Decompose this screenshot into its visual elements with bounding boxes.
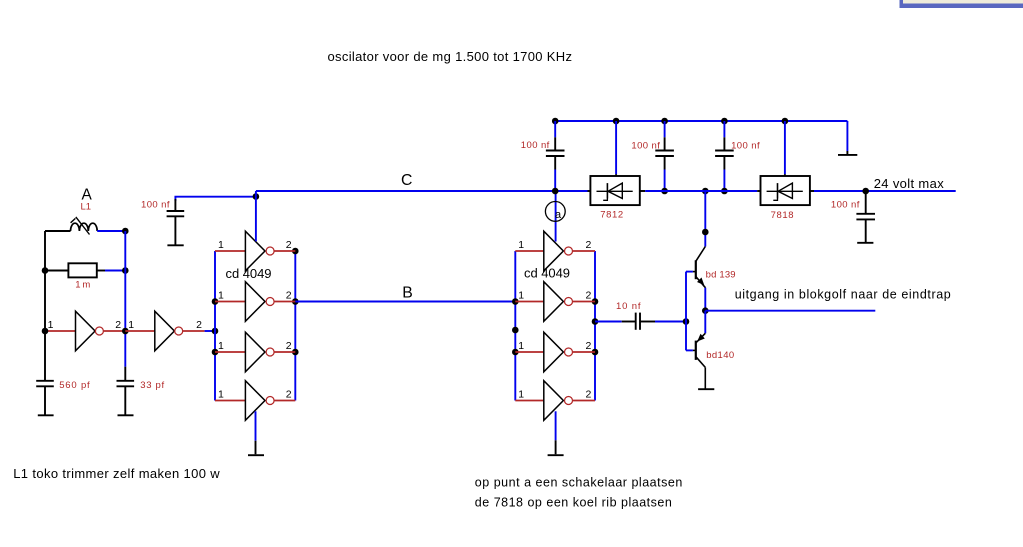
wire 24 volt line xyxy=(814,190,956,192)
window corner fragment xyxy=(900,0,1023,8)
wire xyxy=(214,251,216,401)
resistor R1 value label xyxy=(75,280,90,291)
wire xyxy=(594,251,596,401)
resistor R1 (1 m) xyxy=(68,263,96,277)
transistor Q1 (bd 139) xyxy=(686,247,706,288)
wire base bus xyxy=(685,272,687,351)
wire xyxy=(784,121,786,176)
wire node B xyxy=(295,301,515,303)
capacitor C6 (100 nf) xyxy=(715,121,734,191)
junction xyxy=(512,327,519,334)
svg-text:1: 1 xyxy=(128,319,134,331)
inverter U2C output bubble xyxy=(565,348,573,356)
ground xyxy=(248,441,264,456)
junction xyxy=(613,118,620,125)
svg-text:B: B xyxy=(402,284,413,301)
inductor L1 value label xyxy=(81,202,92,213)
node a label xyxy=(555,209,562,221)
cd 4049 label xyxy=(226,266,272,281)
wire xyxy=(514,251,516,401)
wire xyxy=(175,197,256,201)
wire xyxy=(274,250,295,252)
inverter U1A xyxy=(245,231,265,271)
junction xyxy=(212,328,219,335)
node C label xyxy=(401,172,412,189)
junction xyxy=(592,318,599,325)
wire output line xyxy=(705,310,875,312)
svg-text:1: 1 xyxy=(518,340,524,352)
regulator VR2 label xyxy=(771,210,794,221)
svg-text:2: 2 xyxy=(586,239,592,251)
capacitor C1 (560 pf) xyxy=(36,381,54,416)
junction xyxy=(552,118,559,125)
capacitor C8 (10 nf) xyxy=(622,313,655,330)
pin 2 label xyxy=(286,239,292,251)
capacitor C8 value label xyxy=(616,301,641,312)
junction xyxy=(702,307,709,314)
svg-text:2: 2 xyxy=(586,388,592,400)
wire xyxy=(810,190,814,192)
title text xyxy=(328,49,573,64)
junction xyxy=(253,193,260,200)
wire xyxy=(573,400,595,402)
wire xyxy=(515,301,544,303)
wire xyxy=(640,190,645,192)
svg-text:33 pf: 33 pf xyxy=(140,380,164,391)
junction xyxy=(721,118,728,125)
svg-text:10 nf: 10 nf xyxy=(616,301,641,312)
wire xyxy=(205,330,215,332)
pin 2 label xyxy=(586,289,592,301)
node B label xyxy=(402,284,413,301)
wire xyxy=(124,231,126,367)
svg-text:100 nf: 100 nf xyxy=(521,140,550,151)
inverter U1B output bubble xyxy=(266,298,274,306)
cd 4049 label xyxy=(524,265,570,280)
junction xyxy=(212,298,219,305)
junction xyxy=(552,188,559,195)
svg-text:bd 139: bd 139 xyxy=(706,270,736,281)
wire xyxy=(45,330,76,332)
junction xyxy=(702,229,709,236)
pin 1 label xyxy=(128,319,134,331)
capacitor C7 value label xyxy=(831,200,860,211)
svg-text:2: 2 xyxy=(196,319,202,331)
inverter U2D xyxy=(544,381,564,421)
inverter U1A output bubble xyxy=(266,247,274,255)
svg-text:2: 2 xyxy=(586,340,592,352)
svg-text:1: 1 xyxy=(218,388,224,400)
svg-text:1: 1 xyxy=(518,289,524,301)
pin 2 label xyxy=(586,239,592,251)
svg-text:1: 1 xyxy=(518,239,524,251)
note text xyxy=(475,495,672,509)
junction xyxy=(212,349,219,356)
capacitor C5 (100 nf) xyxy=(655,121,674,191)
svg-text:2: 2 xyxy=(286,388,292,400)
pin 1 label xyxy=(518,340,524,352)
junction xyxy=(683,318,690,325)
wire xyxy=(588,190,591,192)
svg-text:op punt a een schakelaar plaat: op punt a een schakelaar plaatsen xyxy=(475,475,683,489)
capacitor C3 (100 nf) xyxy=(167,199,185,245)
transistor Q2 label xyxy=(706,350,734,361)
junction xyxy=(592,298,599,305)
pin 2 label xyxy=(196,319,202,331)
wire xyxy=(44,231,46,381)
wire xyxy=(294,251,296,401)
pin 1 label xyxy=(218,239,224,251)
pin 2 label xyxy=(586,340,592,352)
transistor Q2 (bd140) xyxy=(686,333,705,367)
wire xyxy=(274,351,295,353)
wire xyxy=(704,288,706,311)
junction xyxy=(292,248,299,255)
svg-text:de 7818 op een koel rib plaats: de 7818 op een koel rib plaatsen xyxy=(475,495,672,509)
inverter U1B xyxy=(245,282,265,322)
svg-text:1: 1 xyxy=(518,388,524,400)
capacitor C3 value label xyxy=(141,200,170,211)
inverter U2A xyxy=(544,231,564,271)
wire xyxy=(215,301,245,303)
wire xyxy=(45,230,71,232)
capacitor C1 value label xyxy=(59,380,90,391)
wire node C xyxy=(256,190,588,192)
capacitor C2 value label xyxy=(140,380,164,391)
inverter U2D output bubble xyxy=(565,397,573,405)
svg-text:100 nf: 100 nf xyxy=(141,200,170,211)
junction xyxy=(512,298,519,305)
pin 1 label xyxy=(48,319,54,331)
wire xyxy=(555,191,557,242)
capacitor C4 (100 nf) xyxy=(546,121,565,191)
wire xyxy=(274,400,295,402)
svg-text:C: C xyxy=(401,172,412,189)
pin 2 label xyxy=(286,340,292,352)
pin 2 label xyxy=(286,289,292,301)
svg-text:1: 1 xyxy=(218,289,224,301)
pin 1 label xyxy=(518,239,524,251)
inverter U1C output bubble xyxy=(266,348,274,356)
svg-text:1: 1 xyxy=(48,319,54,331)
ground xyxy=(548,440,564,455)
wire xyxy=(515,400,544,402)
wire xyxy=(215,250,245,252)
wire xyxy=(615,121,617,176)
inverter U1C xyxy=(245,332,265,372)
24 volt max label xyxy=(874,176,945,191)
wire xyxy=(515,250,544,252)
wire xyxy=(645,190,757,192)
junction xyxy=(42,267,49,274)
junction xyxy=(721,188,728,195)
svg-text:2: 2 xyxy=(286,340,292,352)
svg-text:cd 4049: cd 4049 xyxy=(524,265,570,280)
pin 1 label xyxy=(218,340,224,352)
node a circle xyxy=(545,202,565,222)
inductor L1 xyxy=(71,217,98,235)
wire xyxy=(704,311,706,334)
svg-text:2: 2 xyxy=(115,319,121,331)
svg-text:7812: 7812 xyxy=(600,210,623,221)
inverter U1D xyxy=(245,381,265,421)
inverter G1 xyxy=(76,311,96,351)
pin 2 label xyxy=(115,319,121,331)
svg-text:2: 2 xyxy=(586,289,592,301)
wire xyxy=(274,301,295,303)
wire xyxy=(846,121,848,151)
wire xyxy=(573,250,595,252)
note text xyxy=(475,475,683,489)
wire xyxy=(45,270,68,272)
wire xyxy=(215,400,245,402)
capacitor C2 (33 pf) xyxy=(117,367,135,416)
wire xyxy=(704,191,706,247)
ground wire xyxy=(555,411,557,440)
svg-text:560 pf: 560 pf xyxy=(59,380,90,391)
junction xyxy=(42,328,49,335)
svg-text:2: 2 xyxy=(286,239,292,251)
supply terminal xyxy=(838,151,857,155)
junction xyxy=(862,188,869,195)
svg-text:2: 2 xyxy=(286,289,292,301)
junction xyxy=(292,349,299,356)
svg-text:oscilator voor de mg 1.500 tot: oscilator voor de mg 1.500 tot 1700 KHz xyxy=(328,49,573,64)
capacitor C7 (100 nf) xyxy=(856,191,875,243)
ground wire xyxy=(255,411,257,440)
wire xyxy=(255,191,257,241)
svg-text:1 m: 1 m xyxy=(75,280,90,291)
wire top rail xyxy=(555,120,847,122)
pin 2 label xyxy=(286,388,292,400)
capacitor C6 value label xyxy=(731,140,760,151)
junction xyxy=(782,118,789,125)
svg-text:uitgang in blokgolf naar de e: uitgang in blokgolf naar de eindtrap xyxy=(735,287,951,301)
junction xyxy=(702,188,709,195)
inverter U1D output bubble xyxy=(266,397,274,405)
inverter G1 output bubble xyxy=(95,327,103,335)
wire xyxy=(183,330,205,332)
inverter U2B output bubble xyxy=(565,298,573,306)
svg-text:bd140: bd140 xyxy=(706,350,734,361)
junction xyxy=(122,267,129,274)
svg-text:cd 4049: cd 4049 xyxy=(226,266,272,281)
wire xyxy=(704,367,706,388)
svg-text:100 nf: 100 nf xyxy=(731,140,760,151)
svg-text:100 nf: 100 nf xyxy=(831,200,860,211)
pin 2 label xyxy=(586,388,592,400)
junction xyxy=(122,328,129,335)
transistor Q1 label xyxy=(706,270,736,281)
inverter G2 xyxy=(155,311,175,351)
note text xyxy=(13,466,220,481)
junction xyxy=(661,118,668,125)
node A label xyxy=(82,186,93,203)
wire xyxy=(573,351,595,353)
output text label xyxy=(735,287,951,301)
capacitor C4 value label xyxy=(521,140,550,151)
wire xyxy=(515,351,544,353)
wire xyxy=(97,230,125,232)
capacitor C5 value label xyxy=(631,140,660,151)
inverter U2A output bubble xyxy=(565,247,573,255)
wire xyxy=(97,270,105,272)
wire xyxy=(573,301,595,303)
pin 1 label xyxy=(518,289,524,301)
junction xyxy=(592,349,599,356)
wire xyxy=(215,351,245,353)
svg-text:L1 toko trimmer zelf maken 100: L1 toko trimmer zelf maken 100 w xyxy=(13,466,220,481)
ground xyxy=(698,388,714,390)
junction xyxy=(512,349,519,356)
pin 1 label xyxy=(218,289,224,301)
pin 1 label xyxy=(518,388,524,400)
svg-text:1: 1 xyxy=(218,239,224,251)
svg-text:a: a xyxy=(555,209,562,221)
inverter U2B xyxy=(544,282,564,322)
wire xyxy=(105,270,125,272)
inverter U2C xyxy=(544,332,564,372)
svg-text:7818: 7818 xyxy=(771,210,794,221)
regulator VR1 label xyxy=(600,210,623,221)
pin 1 label xyxy=(218,388,224,400)
svg-text:L1: L1 xyxy=(81,202,92,213)
wire xyxy=(757,190,760,192)
svg-text:1: 1 xyxy=(218,340,224,352)
wire xyxy=(125,330,155,332)
wire xyxy=(655,321,686,323)
inverter G2 output bubble xyxy=(175,327,183,335)
voltage regulator VR2 (7818) xyxy=(761,176,810,205)
voltage regulator VR1 (7812) xyxy=(590,176,639,205)
junction xyxy=(122,228,129,235)
svg-text:24 volt max: 24 volt max xyxy=(874,176,945,191)
wire xyxy=(595,321,622,323)
junction xyxy=(661,188,668,195)
junction xyxy=(292,298,299,305)
wire xyxy=(104,330,126,332)
